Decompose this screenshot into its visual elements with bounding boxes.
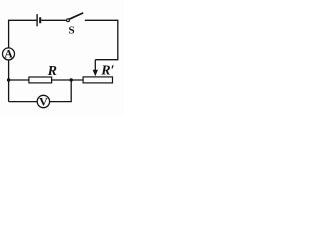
svg-text:S: S [69, 25, 75, 37]
svg-text:V: V [39, 95, 48, 109]
svg-text:R: R [47, 64, 57, 79]
svg-text:A: A [4, 48, 13, 60]
svg-text:R′: R′ [100, 64, 114, 79]
